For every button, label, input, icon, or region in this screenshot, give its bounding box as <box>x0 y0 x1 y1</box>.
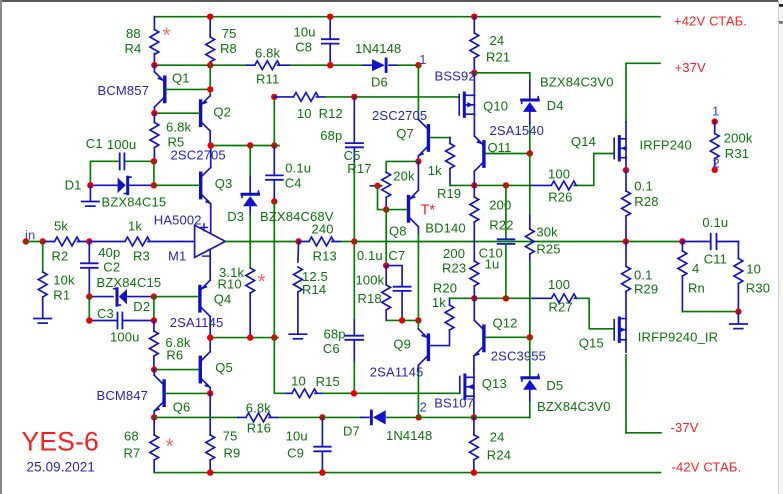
svg-text:C2: C2 <box>103 259 120 274</box>
svg-text:R2: R2 <box>52 249 69 264</box>
wire C1 left down to D1 <box>89 161 91 185</box>
wire C6 bottom to R15 node <box>353 362 355 393</box>
zener diode D4 BZX84C3V0 <box>529 82 531 99</box>
junction dot R21/rail <box>471 14 477 20</box>
svg-text:25.09.2021: 25.09.2021 <box>27 460 96 475</box>
svg-text:BSS92: BSS92 <box>435 68 476 83</box>
svg-text:R4: R4 <box>125 41 142 56</box>
junction dot C4 column row337 <box>271 334 277 340</box>
resistor Rn <box>681 242 683 312</box>
svg-text:R22: R22 <box>489 217 513 232</box>
junction dot D2 right <box>151 293 157 299</box>
svg-text:1: 1 <box>419 52 426 67</box>
junction dot R12 left <box>271 94 277 100</box>
junction dot D3 top <box>247 142 253 148</box>
svg-text:200: 200 <box>443 246 465 261</box>
junction dot Q12 base / D5 top <box>527 334 533 340</box>
svg-text:T*: T* <box>421 202 436 218</box>
svg-text:R7: R7 <box>124 445 141 460</box>
zener diode D1 BZX84C15 <box>90 184 153 186</box>
output mid rail wire left part <box>225 241 298 243</box>
junction dot C1/R5 <box>151 158 157 164</box>
svg-text:C7: C7 <box>388 248 405 263</box>
wire node1 down to Q7 collector <box>417 65 419 119</box>
svg-text:+42V СТАБ.: +42V СТАБ. <box>674 13 747 28</box>
svg-text:Q10: Q10 <box>483 99 508 114</box>
svg-text:-37V: -37V <box>671 420 699 435</box>
resistor R10 <box>246 268 255 293</box>
svg-text:68p: 68p <box>320 128 342 143</box>
resistor R19 <box>449 138 451 186</box>
svg-text:C8: C8 <box>295 40 312 55</box>
svg-text:30k: 30k <box>536 225 558 240</box>
wire R18/C7 bottom row <box>386 319 418 321</box>
wire R12 to Q10 gate <box>325 96 459 98</box>
wire op-amp top edge to Q3 emitter <box>210 206 212 233</box>
resistor R24 <box>473 417 475 472</box>
wire Q11 base to D4 bottom <box>486 153 530 155</box>
resistor R20 <box>445 305 454 330</box>
svg-text:R19: R19 <box>437 186 461 201</box>
junction dot Q6 emitter <box>151 414 157 420</box>
transistor Q5 <box>202 338 211 361</box>
svg-text:IRFP9240_IR: IRFP9240_IR <box>638 330 718 345</box>
node: R4 top rail junction wire <box>153 17 155 65</box>
junction dot Q13 source / R24 <box>471 414 477 420</box>
wire Q10 drain node to D4 <box>474 73 530 82</box>
svg-text:1: 1 <box>712 103 719 118</box>
transistor Q4 2SA1145 <box>202 280 211 289</box>
svg-text:1N4148: 1N4148 <box>355 41 401 56</box>
junction dot Q4/Q5 <box>207 334 213 340</box>
resistor R18 <box>385 266 387 321</box>
capacitor C8 <box>329 17 331 65</box>
svg-text:C11: C11 <box>704 252 727 267</box>
wire Q7 base to R19 <box>430 137 450 139</box>
wire Q11/R22 row185 <box>450 184 531 186</box>
resistor R9 <box>209 393 211 472</box>
junction dot R12/C5 <box>351 94 357 100</box>
svg-text:R30: R30 <box>746 280 770 295</box>
junction dot Q7 emitter / R17 <box>415 158 421 164</box>
wire Q15 source green part <box>625 355 627 433</box>
svg-text:*: * <box>163 24 171 47</box>
svg-text:R1: R1 <box>53 288 70 303</box>
junction dot C10 bottom <box>503 295 509 301</box>
wire Q8 base node down to R18 top <box>385 210 387 266</box>
svg-text:R14: R14 <box>302 282 326 297</box>
junction dot R31 bottom <box>712 167 718 173</box>
svg-text:2: 2 <box>420 399 427 414</box>
svg-text:BZX84C3V0: BZX84C3V0 <box>537 399 611 414</box>
svg-text:R27: R27 <box>549 300 573 315</box>
wire op-amp bottom edge to Q4 emitter <box>209 249 211 280</box>
resistor R23 <box>473 242 475 299</box>
svg-text:R23: R23 <box>442 260 466 275</box>
transistor Q7 2SC2705 <box>418 120 427 129</box>
resistor R1 <box>42 242 44 273</box>
capacitor C11 <box>682 241 738 243</box>
transistor Q12 2SC3955 <box>474 298 482 328</box>
wire Q12 base to R25/D5 node <box>486 336 530 338</box>
wire row y=65 from R4 to node 1 <box>154 64 418 66</box>
window top border <box>0 0 783 2</box>
resistor R16 <box>238 416 277 418</box>
svg-text:Q7: Q7 <box>396 126 414 141</box>
junction dot node C <box>151 110 157 116</box>
junction dot C4 bottom <box>271 198 277 204</box>
wire Q3 base from D1 node <box>154 184 199 186</box>
svg-text:5k: 5k <box>54 218 68 233</box>
resistor R4 <box>150 30 159 55</box>
ground below R14 <box>289 334 306 339</box>
junction dot R17 wiper <box>374 183 380 189</box>
junction dot C10 top <box>503 182 509 188</box>
wire Q9 base to R20 bottom <box>430 330 449 346</box>
svg-text:0.1u: 0.1u <box>285 161 311 176</box>
svg-text:Q9: Q9 <box>393 336 411 351</box>
bottom negative rail wire <box>154 472 660 474</box>
resistor R7 <box>153 417 155 472</box>
mid rail wire center part <box>354 241 682 243</box>
transistor Q8 BD140 <box>410 161 419 199</box>
junction dot R21 bottom / Q10 drain <box>471 70 477 76</box>
capacitor C2 <box>88 242 90 297</box>
resistor R29 <box>625 242 627 319</box>
svg-text:2: 2 <box>713 155 720 170</box>
svg-text:100: 100 <box>548 167 570 182</box>
junction dot Q11 collector / R22 <box>471 182 477 188</box>
junction dot C3 left <box>86 317 92 323</box>
svg-text:BZX84C3V0: BZX84C3V0 <box>540 75 614 90</box>
+37V wire <box>626 63 660 122</box>
resistor R13 <box>299 241 341 243</box>
svg-text:0.1: 0.1 <box>634 178 653 193</box>
svg-text:*: * <box>258 271 266 294</box>
wire node2 to Q13 source to D5 bottom <box>419 416 530 418</box>
junction dot C4 top <box>271 142 277 148</box>
svg-text:Q1: Q1 <box>172 70 190 85</box>
window left border <box>0 0 2 494</box>
svg-text:10u: 10u <box>294 25 316 40</box>
svg-text:R28: R28 <box>634 194 658 209</box>
transistor Q2 <box>202 96 211 105</box>
wire wiper down to R17 bottom <box>378 186 387 210</box>
wire Q4 collector row <box>210 337 278 339</box>
mosfet Q15 IRFP9240_IR <box>613 320 615 340</box>
input terminal dot <box>23 238 29 244</box>
junction dot C9 bottom <box>319 469 325 475</box>
svg-text:R17: R17 <box>347 161 371 176</box>
wire R12 row <box>273 97 275 146</box>
resistor R3 <box>89 241 194 243</box>
wire row320 down to Q9 emitter <box>417 320 419 329</box>
wire between C1 and D1 nodes <box>153 161 155 185</box>
svg-text:1u: 1u <box>485 256 500 271</box>
svg-text:1k: 1k <box>428 163 442 178</box>
junction dot R8 bottom <box>207 62 213 68</box>
svg-text:R11: R11 <box>256 72 279 87</box>
wire C5 bottom to mid rail <box>353 162 355 242</box>
scrollbar arrow mark <box>779 4 783 7</box>
junction dot R1/R2 <box>40 238 46 244</box>
junction dot C7 bottom <box>399 317 405 323</box>
wire R17 bottom to Q8 base <box>386 209 406 211</box>
wire Q2 base to node C <box>154 112 199 114</box>
wire Q4 base from D2 node <box>154 296 198 298</box>
junction dot R24 bottom <box>471 469 477 475</box>
junction dot Q5/Q6/R9 <box>207 390 213 396</box>
wire R6 node to Q5 base <box>154 369 199 371</box>
wire column x274 down to R15 corner <box>274 338 286 394</box>
resistor R30 <box>737 242 739 312</box>
resistor R15 <box>286 392 323 394</box>
scrollbar thumb mark <box>779 21 783 24</box>
capacitor C1 <box>90 160 153 162</box>
junction dot R28 bottom mid rail <box>623 238 629 244</box>
svg-text:D5: D5 <box>546 378 563 393</box>
wire D3 column upper <box>249 146 251 177</box>
svg-text:R8: R8 <box>220 41 237 56</box>
resistor R21 <box>473 17 475 73</box>
svg-text:2SA1145: 2SA1145 <box>370 364 424 379</box>
wire C2 column to C3 row <box>88 297 90 321</box>
potentiometer R17 <box>385 171 387 173</box>
svg-text:40p: 40p <box>98 245 120 260</box>
svg-text:200k: 200k <box>724 131 753 146</box>
transistor Q1 BCM857 <box>153 65 155 72</box>
svg-text:M1: M1 <box>168 249 186 264</box>
transistor Q9 2SA1145 <box>418 329 427 338</box>
junction dot R2/R3/C2 <box>86 238 92 244</box>
resistor R6 <box>153 321 155 370</box>
capacitor C10 <box>505 185 507 239</box>
scrollbar track right <box>779 0 783 494</box>
junction dot R10 bottom <box>247 334 253 340</box>
wire R15 to Q13 gate <box>323 392 460 394</box>
ground below R30 <box>737 312 739 324</box>
wire R27 to Q15 gate <box>578 298 614 329</box>
junction dot C6/R15 <box>351 390 357 396</box>
svg-text:R26: R26 <box>548 190 572 205</box>
resistor R5 <box>153 113 155 161</box>
svg-text:24: 24 <box>490 33 505 48</box>
svg-text:BD140: BD140 <box>425 221 466 236</box>
junction dot Q8 emitter row320 <box>415 317 421 323</box>
wire R25 bottom green part <box>529 262 531 337</box>
svg-text:Q2: Q2 <box>213 105 231 120</box>
capacitor C4 <box>266 175 283 179</box>
junction dot R17 bottom <box>383 206 389 212</box>
svg-text:D4: D4 <box>547 98 564 113</box>
svg-text:D2: D2 <box>133 299 150 314</box>
svg-text:BCM847: BCM847 <box>97 388 148 403</box>
svg-text:2SC3955: 2SC3955 <box>491 349 546 364</box>
svg-text:BCM857: BCM857 <box>98 83 149 98</box>
junction dot R13 left <box>295 238 301 244</box>
svg-text:C6: C6 <box>323 341 340 356</box>
transistor Q11 2SA1540 <box>474 136 482 144</box>
junction dot R30 bottom <box>735 308 741 314</box>
junction dot R9 bottom <box>207 469 213 475</box>
svg-text:1k: 1k <box>128 218 142 233</box>
svg-text:0.1u: 0.1u <box>702 215 728 230</box>
svg-text:Q6: Q6 <box>173 399 191 414</box>
svg-text:88: 88 <box>126 26 141 41</box>
svg-text:6.8k: 6.8k <box>166 120 192 135</box>
svg-text:10k: 10k <box>53 272 75 287</box>
resistor R8 <box>209 17 211 65</box>
svg-text:R25: R25 <box>536 242 560 257</box>
wire mid rail to C6 top <box>353 242 355 321</box>
capacitor C5 <box>353 97 355 143</box>
wire Q2/Q3 collectors row <box>211 145 279 147</box>
mosfet Q10 BSS92 <box>458 95 460 115</box>
svg-text:1k: 1k <box>432 295 446 310</box>
wire R17 top <box>386 161 418 172</box>
capacitor C9 <box>321 417 323 472</box>
svg-text:Q5: Q5 <box>215 360 233 375</box>
junction dot R18 top <box>383 262 389 268</box>
svg-text:R15: R15 <box>316 374 340 389</box>
svg-text:R3: R3 <box>133 249 150 264</box>
mosfet Q14 IRFP240 <box>625 122 627 139</box>
transistor Q3 <box>202 146 211 177</box>
junction dot Rn top / C11 <box>679 238 685 244</box>
svg-text:Q8: Q8 <box>389 223 407 238</box>
svg-text:C9: C9 <box>287 445 304 460</box>
svg-text:6.8k: 6.8k <box>246 401 272 416</box>
svg-text:Q14: Q14 <box>571 134 596 149</box>
svg-text:2SA1145: 2SA1145 <box>170 315 224 330</box>
wire Q8 emitter down through rail to row320 <box>417 234 419 320</box>
svg-text:100k: 100k <box>356 273 385 288</box>
svg-text:Q4: Q4 <box>214 291 232 306</box>
svg-text:R21: R21 <box>486 50 510 65</box>
svg-text:10u: 10u <box>286 428 308 443</box>
wire R8 bottom down to Q2 emitter <box>209 65 211 96</box>
svg-text:2SC2705: 2SC2705 <box>171 148 226 163</box>
junction dot R23 bottom <box>471 295 477 301</box>
wire in to R2 <box>26 241 46 243</box>
svg-text:100: 100 <box>548 277 570 292</box>
svg-text:IRFP240: IRFP240 <box>640 138 692 153</box>
resistor R11 <box>247 64 289 66</box>
svg-text:Q15: Q15 <box>579 336 604 351</box>
svg-text:R16: R16 <box>247 421 271 436</box>
svg-text:C1: C1 <box>86 136 103 151</box>
svg-text:R13: R13 <box>313 249 337 264</box>
svg-text:R31: R31 <box>725 146 749 161</box>
svg-text:C3: C3 <box>97 306 114 321</box>
wire D3 to R10 <box>249 215 251 268</box>
svg-text:Rn: Rn <box>688 280 705 295</box>
svg-text:24: 24 <box>490 430 505 445</box>
resistor R14 <box>297 242 300 334</box>
svg-text:10: 10 <box>291 374 306 389</box>
svg-text:68p: 68p <box>324 327 346 342</box>
resistor R12 <box>274 96 325 98</box>
junction dot C8 bottom <box>327 62 333 68</box>
resistor R25 <box>529 216 531 229</box>
zener diode D3 BZX84C68V <box>249 177 251 193</box>
wire Q1 base to node B <box>167 88 211 90</box>
junction dot D1 right <box>151 182 157 188</box>
wire R26 to Q14 gate <box>578 154 615 186</box>
svg-text:100u: 100u <box>110 330 140 345</box>
junction dot Q11 base / D4 <box>527 150 533 156</box>
capacitor C7 <box>386 266 402 287</box>
op-amp M1 HA5002 <box>195 225 226 257</box>
svg-text:1N4148: 1N4148 <box>386 428 432 443</box>
wire D4 node down to R25 <box>529 154 531 217</box>
capacitor C6 <box>353 320 355 336</box>
svg-text:240: 240 <box>312 221 334 236</box>
svg-text:0.1: 0.1 <box>634 267 653 282</box>
svg-text:HA5002: HA5002 <box>154 213 202 228</box>
junction dot C3 right <box>151 317 157 323</box>
svg-text:C4: C4 <box>285 176 302 191</box>
svg-text:6.8k: 6.8k <box>255 46 281 61</box>
junction dot C8/rail <box>327 14 333 20</box>
svg-text:0.1u: 0.1u <box>357 248 383 263</box>
junction dot R6/Q6 collector <box>151 366 157 372</box>
node 1 junction dot <box>415 62 421 68</box>
svg-text:D6: D6 <box>371 75 388 90</box>
svg-text:75: 75 <box>222 26 237 41</box>
wire D2 right column to C3 row <box>153 297 155 321</box>
junction dot Q14 source <box>623 167 629 173</box>
wire feedback row298 <box>450 297 534 299</box>
junction dot D1 left <box>87 182 93 188</box>
resistor R31 <box>712 118 718 124</box>
junction dot R4 bottom <box>151 62 157 68</box>
wire C4 column <box>273 146 275 176</box>
svg-text:+37V: +37V <box>675 60 707 75</box>
wire Q6 base to Q5 emitter node <box>166 392 210 394</box>
svg-text:100u: 100u <box>107 137 137 152</box>
svg-text:68: 68 <box>124 428 139 443</box>
diode D6 1N4148 <box>364 64 396 66</box>
svg-text:*: * <box>166 435 174 458</box>
svg-text:BZX84C15: BZX84C15 <box>97 275 162 290</box>
svg-text:R18: R18 <box>358 291 382 306</box>
svg-text:D1: D1 <box>65 177 82 192</box>
svg-text:2SA1540: 2SA1540 <box>490 123 545 138</box>
diode D7 1N4148 <box>322 416 418 418</box>
svg-text:R9: R9 <box>224 445 241 460</box>
zener diode D5 BZX84C3V0 <box>529 337 531 376</box>
resistor R26 <box>531 184 578 186</box>
zener diode D2 <box>89 296 154 298</box>
svg-text:20k: 20k <box>393 169 415 184</box>
svg-text:R12: R12 <box>319 106 343 121</box>
svg-text:R20: R20 <box>433 281 457 296</box>
svg-text:10: 10 <box>297 106 312 121</box>
junction dot D2 left <box>86 293 92 299</box>
svg-text:200: 200 <box>489 197 511 212</box>
wire Q6 emitter row to C9 <box>154 416 322 418</box>
svg-text:YES-6: YES-6 <box>22 427 99 457</box>
svg-text:D3: D3 <box>227 209 244 224</box>
svg-text:R6: R6 <box>166 348 183 363</box>
svg-text:Q12: Q12 <box>493 316 518 331</box>
junction dot Q2/Q3 collector <box>208 142 214 148</box>
svg-text:2SC2705: 2SC2705 <box>372 108 427 123</box>
wire Rn bottom to R30 bottom <box>682 311 738 313</box>
svg-text:R24: R24 <box>487 448 511 463</box>
ground below D1 <box>89 185 91 201</box>
